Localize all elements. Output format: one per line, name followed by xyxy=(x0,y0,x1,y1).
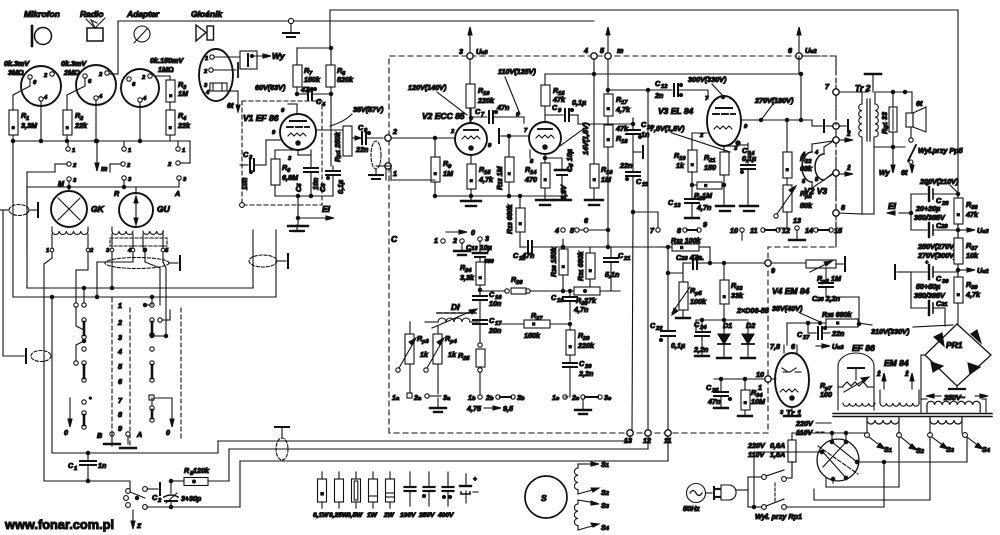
ground under 2a xyxy=(430,398,446,412)
cable shield above switch bank xyxy=(105,258,169,269)
heater pair caps on node xyxy=(824,120,848,132)
svg-text:10k: 10k xyxy=(966,251,979,260)
left lower contacts xyxy=(82,397,92,429)
capacitor C27 22n xyxy=(797,321,845,341)
svg-text:0,1µ: 0,1µ xyxy=(742,154,756,163)
svg-text:9: 9 xyxy=(118,424,122,433)
terminal row 1 2 3 with 0 arrow xyxy=(434,228,489,245)
wire socket pins 4 down xyxy=(41,100,140,141)
tube V2b xyxy=(529,122,561,154)
grounds under V3 xyxy=(716,206,758,211)
svg-text:50k: 50k xyxy=(800,201,813,210)
svg-text:1M: 1M xyxy=(443,169,454,178)
svg-text:120V(140V): 120V(140V) xyxy=(408,83,447,92)
potentiometer Rp5 100k xyxy=(672,263,707,318)
wire V3 anode right xyxy=(741,104,822,126)
capacitor C1 1n xyxy=(68,453,107,481)
solenoid coil group B xyxy=(574,500,578,530)
svg-text:110V: 110V xyxy=(748,450,765,459)
svg-text:4: 4 xyxy=(583,46,588,55)
position numbers 1-9 xyxy=(117,301,123,433)
svg-text:25: 25 xyxy=(711,388,719,394)
svg-text:Adapter: Adapter xyxy=(126,9,160,19)
resistor R14 470 xyxy=(524,154,550,200)
svg-text:Mikrofon: Mikrofon xyxy=(24,9,60,19)
wire node6 down xyxy=(799,59,801,74)
svg-text:ż: ż xyxy=(876,369,881,378)
resistor R15 47k above V2b xyxy=(541,74,566,106)
svg-text:100: 100 xyxy=(820,390,832,399)
svg-text:1: 1 xyxy=(128,148,131,154)
wire node1 to lower bus xyxy=(376,166,386,180)
resistor R7 150k xyxy=(293,48,321,87)
Gt arrow up xyxy=(901,164,914,177)
svg-text:R13 680k: R13 680k xyxy=(505,203,514,234)
svg-text:250V(270V): 250V(270V) xyxy=(917,242,957,251)
trimmer capacitor C2 3-30p xyxy=(147,481,202,507)
wire R16 top to node4 line xyxy=(593,90,595,155)
svg-text:22n: 22n xyxy=(831,329,845,338)
legend resistor 0.5W xyxy=(347,472,363,519)
svg-text:13: 13 xyxy=(793,216,801,225)
svg-text:1: 1 xyxy=(205,56,208,62)
output jack box xyxy=(240,51,257,69)
svg-text:10n: 10n xyxy=(489,299,502,308)
socket terminal row 4 5 6 xyxy=(554,216,610,235)
svg-text:28: 28 xyxy=(941,201,949,207)
label 110V(125V) with callout xyxy=(498,67,536,114)
switch S3 xyxy=(928,433,955,454)
nodes 13 12 11 on box bottom xyxy=(624,430,671,445)
svg-text:1: 1 xyxy=(758,383,762,392)
svg-text:2: 2 xyxy=(452,236,457,245)
resistor R21 150 xyxy=(704,146,729,206)
svg-text:13: 13 xyxy=(674,203,681,209)
svg-text:22n: 22n xyxy=(355,145,369,154)
lower bus under V1 xyxy=(275,194,333,197)
coil A arrows S1 S2 xyxy=(578,460,610,497)
contact row 2 xyxy=(55,141,190,172)
tube V1 cathode wires xyxy=(275,150,311,155)
Wy arrow down xyxy=(879,147,895,177)
svg-text:2W: 2W xyxy=(383,512,395,519)
resistor R2 22k xyxy=(63,110,88,141)
svg-text:4,7k: 4,7k xyxy=(478,175,494,184)
svg-text:3: 3 xyxy=(485,234,489,243)
legend resistor 0.1W xyxy=(313,472,329,519)
wire R2 to socket2 xyxy=(67,78,85,110)
svg-text:47n: 47n xyxy=(300,85,314,94)
resistor R29 220k xyxy=(566,324,595,363)
right 0 arrow xyxy=(166,400,174,437)
capacitor C21 5.1n xyxy=(604,251,630,291)
svg-text:1k: 1k xyxy=(676,161,685,170)
electrolytic C28 20+20u 350/385V xyxy=(911,182,958,237)
transformer Tr2 windings xyxy=(859,90,907,214)
capacitor C14 0.1u xyxy=(738,143,756,206)
arrow up from node 5 xyxy=(606,27,610,53)
input DIN socket 3 (Adapter) xyxy=(121,69,159,107)
capacitor C23 47n xyxy=(676,253,712,270)
svg-text:14V(1,5V): 14V(1,5V) xyxy=(581,122,590,155)
svg-text:C13 10µ: C13 10µ xyxy=(466,243,492,252)
electrolytic C13 10u xyxy=(466,241,494,265)
Tr2 primary top ground xyxy=(865,74,881,92)
svg-text:35V(57V): 35V(57V) xyxy=(353,105,384,114)
V2a lower bus xyxy=(386,166,565,198)
switch cluster with C2 trimmer xyxy=(124,483,160,509)
wires right of cluster xyxy=(147,449,668,509)
svg-text:5,1n: 5,1n xyxy=(605,270,620,279)
svg-text:2: 2 xyxy=(392,127,397,136)
resistor R18 47k xyxy=(604,116,629,249)
wire Rp2 bottom to terminal 11-12 xyxy=(0,0,1,1)
wire V2b grid top C9 connection xyxy=(545,106,635,126)
labels 220V 110V xyxy=(795,419,831,437)
svg-text:R31 680k: R31 680k xyxy=(576,250,585,281)
svg-text:10: 10 xyxy=(730,226,738,235)
svg-text:R: R xyxy=(114,189,120,198)
svg-text:270V(300V): 270V(300V) xyxy=(917,251,957,260)
wires heads to bank xyxy=(44,248,166,336)
svg-text:V2 ECC 85: V2 ECC 85 xyxy=(422,111,465,121)
node 2 on box edge xyxy=(385,127,397,141)
svg-text:4,7k: 4,7k xyxy=(965,290,981,299)
mains socket 50Hz xyxy=(683,484,706,514)
svg-text:4: 4 xyxy=(117,347,122,356)
Tr1 secondary winding B xyxy=(930,417,962,433)
svg-text:Rg1 33: Rg1 33 xyxy=(880,112,889,134)
svg-text:24: 24 xyxy=(699,325,707,331)
svg-text:150k: 150k xyxy=(524,331,541,340)
tube V3 xyxy=(707,96,741,146)
svg-text:7,5V(1,5V): 7,5V(1,5V) xyxy=(650,124,685,133)
cable shield left of GK xyxy=(9,205,29,216)
head feed line xyxy=(27,180,179,252)
speaker DIN socket xyxy=(199,49,233,101)
ground under shield xyxy=(369,169,383,179)
wire V2a anode up xyxy=(469,108,472,123)
wire y453 xyxy=(52,441,630,455)
svg-text:8: 8 xyxy=(118,410,122,419)
resistor R25 xyxy=(458,343,485,372)
capacitor C9 0.1u xyxy=(545,98,586,121)
svg-text:3,3k: 3,3k xyxy=(460,273,475,282)
El arrow xyxy=(296,204,334,220)
svg-text:47n: 47n xyxy=(496,103,510,112)
terminal row 1c 2c 3c xyxy=(552,393,612,402)
resistor R33 33k xyxy=(720,261,744,330)
svg-text:El: El xyxy=(888,201,897,211)
wire C12 to V3 grid xyxy=(707,90,709,99)
solenoid coil group A xyxy=(574,464,578,494)
svg-text:50Hz: 50Hz xyxy=(683,504,700,513)
ground under 2c xyxy=(575,399,591,414)
capacitor C17 20n xyxy=(473,316,502,343)
label 7,5V(1,5V) with callout xyxy=(650,124,730,152)
capacitor C11 22n xyxy=(619,152,658,430)
svg-text:110V(125V): 110V(125V) xyxy=(498,67,536,76)
resistor R5 120k xyxy=(169,466,229,486)
capacitor C15 4.7n xyxy=(668,183,712,213)
potentiometer Rp2 50k xyxy=(774,178,813,230)
svg-text:m: m xyxy=(101,164,108,173)
coil B arrows S3 S4 xyxy=(578,500,610,532)
resistor R39 4.7k xyxy=(954,270,981,303)
svg-text:0,5W: 0,5W xyxy=(347,512,363,519)
labels 250V(270V) 270V(300V) xyxy=(917,242,957,260)
svg-text:1M: 1M xyxy=(702,191,713,200)
resistor R24 3.3k xyxy=(460,262,485,296)
V4 pin labels and top leads xyxy=(770,342,800,416)
tube V4 EM84 xyxy=(775,353,809,407)
svg-text:A: A xyxy=(174,189,180,198)
svg-text:EM 84: EM 84 xyxy=(884,358,909,368)
wire R1 to socket1 xyxy=(13,79,30,110)
svg-text:400V: 400V xyxy=(437,512,454,519)
resistor R11 4.7k xyxy=(467,155,494,201)
svg-text:ż: ż xyxy=(846,163,851,172)
right lower contacts xyxy=(150,398,154,422)
jumper R26 xyxy=(482,275,570,294)
svg-text:1n: 1n xyxy=(641,130,650,139)
node 3 on box top xyxy=(459,47,488,59)
capacitor C22 0.1u xyxy=(650,245,685,430)
tube V1 pin labels xyxy=(272,108,292,162)
svg-text:27: 27 xyxy=(802,335,810,341)
resistor R19 1k xyxy=(674,133,707,185)
resistor R1 3.3M xyxy=(9,110,38,141)
record head GU xyxy=(119,187,171,227)
contact row 1 xyxy=(66,141,185,154)
svg-text:13: 13 xyxy=(624,436,632,445)
svg-text:Wył. przy Rp1: Wył. przy Rp1 xyxy=(755,512,802,521)
wire V2b cathode xyxy=(529,150,531,158)
svg-text:V3 EL 84: V3 EL 84 xyxy=(658,106,694,116)
svg-text:6t: 6t xyxy=(227,101,234,110)
wire node 10 to V4 xyxy=(714,378,776,380)
svg-text:270V(180V): 270V(180V) xyxy=(754,96,794,105)
capacitor C3 10n xyxy=(240,150,266,190)
svg-text:1k: 1k xyxy=(420,350,429,359)
shield T right xyxy=(169,256,180,270)
wire speaker pin1 to output jack xyxy=(214,56,240,58)
svg-text:C: C xyxy=(391,234,398,244)
dashed box around V1 xyxy=(242,101,322,205)
svg-text:1: 1 xyxy=(46,248,49,254)
heater winding EM84 xyxy=(876,358,919,406)
bus line under inputs xyxy=(11,139,190,142)
svg-text:1MΩ: 1MΩ xyxy=(158,65,174,74)
svg-text:2×D06-58: 2×D06-58 xyxy=(736,306,769,315)
svg-text:0: 0 xyxy=(64,428,68,437)
mains plug xyxy=(706,485,736,500)
svg-text:ż: ż xyxy=(904,369,909,378)
speaker icon xyxy=(196,25,214,41)
svg-text:EF 86: EF 86 xyxy=(852,343,875,353)
socket terminal row 10 11 12 xyxy=(730,226,790,235)
wire C3 to tube pin9 xyxy=(266,140,280,165)
svg-text:33k: 33k xyxy=(731,291,744,300)
svg-text:100k: 100k xyxy=(690,297,707,306)
wires shields to bank xyxy=(13,230,276,305)
svg-text:V2 V3: V2 V3 xyxy=(804,186,827,196)
svg-text:27k: 27k xyxy=(583,296,597,305)
tube V2a xyxy=(455,123,487,155)
svg-text:22n: 22n xyxy=(619,161,633,170)
switch Wyl przy Pp5 xyxy=(908,145,964,164)
Tr1 secondary winding A xyxy=(867,417,899,433)
left 0 arrow xyxy=(64,398,72,437)
ground near shield xyxy=(290,225,304,231)
GU azimuth dashed box xyxy=(110,238,167,246)
svg-text:47k: 47k xyxy=(552,95,566,104)
ground under V2a xyxy=(461,201,481,206)
svg-text:20n: 20n xyxy=(488,326,502,335)
svg-text:6t: 6t xyxy=(901,168,908,177)
socket terminal row 7 8 9 xyxy=(650,220,707,235)
svg-text:0k.3mV: 0k.3mV xyxy=(4,59,30,68)
svg-text:30: 30 xyxy=(942,279,949,285)
legend resistor 2W xyxy=(383,472,395,519)
GK coil xyxy=(46,227,94,254)
svg-text:0: 0 xyxy=(471,228,475,237)
svg-text:19: 19 xyxy=(557,298,564,304)
svg-text:www.fonar.com.pl: www.fonar.com.pl xyxy=(4,517,114,532)
resistor R6 6.8M xyxy=(271,150,299,196)
wire node4 down xyxy=(593,59,595,90)
svg-text:GU: GU xyxy=(157,204,171,214)
svg-text:0k.150mV: 0k.150mV xyxy=(150,56,184,65)
potentiometer Rp4 1k xyxy=(424,326,458,384)
svg-text:0,1W: 0,1W xyxy=(313,512,329,519)
potentiometer Rp3 1k xyxy=(396,322,430,393)
capacitor C4 47n xyxy=(295,85,332,108)
wire C12 left to R18 top xyxy=(606,88,649,430)
resistor R9 1M xyxy=(431,138,454,196)
svg-text:1: 1 xyxy=(72,148,75,154)
cable shield lower left xyxy=(26,349,51,363)
svg-text:4,7k: 4,7k xyxy=(615,105,631,114)
cable shield mid xyxy=(249,255,277,267)
Tr1 core double lines xyxy=(786,408,992,418)
svg-text:0,1µ: 0,1µ xyxy=(572,98,586,107)
legend capacitor 400V xyxy=(437,472,454,519)
svg-text:R35 680k: R35 680k xyxy=(822,310,853,319)
erase head GK xyxy=(51,187,105,227)
svg-text:1: 1 xyxy=(74,466,77,472)
svg-text:12: 12 xyxy=(661,84,668,90)
wire tube grid cap to pin6 xyxy=(288,104,297,114)
resistor R3 1M xyxy=(154,76,189,102)
node 10 xyxy=(756,370,771,392)
label 300V(330V) with callout xyxy=(688,75,727,99)
V2a pin labels xyxy=(450,129,492,149)
svg-text:150: 150 xyxy=(704,163,716,172)
V3 pin labels xyxy=(699,96,748,152)
wire Ua2 arrow xyxy=(956,266,989,275)
wire node2 to V2a grid xyxy=(391,136,455,139)
svg-text:15: 15 xyxy=(834,226,843,235)
svg-text:47k: 47k xyxy=(615,124,629,133)
resistor R13 680k xyxy=(505,194,525,247)
svg-text:220V: 220V xyxy=(747,441,766,450)
svg-text:22k: 22k xyxy=(74,121,88,130)
node 9 xyxy=(765,260,775,275)
nodes on right box edge xyxy=(833,123,862,216)
svg-text:10n: 10n xyxy=(240,177,249,190)
arrow up from node 6 xyxy=(797,27,801,53)
socket terminal 13 with ground xyxy=(789,216,805,240)
bank grounds xyxy=(104,432,136,448)
svg-text:560: 560 xyxy=(484,259,494,265)
supply line y74 xyxy=(545,72,803,75)
resistor R16 1M xyxy=(590,155,613,200)
right square contact xyxy=(149,395,172,400)
GU coils xyxy=(106,227,169,254)
svg-text:100V: 100V xyxy=(400,512,416,519)
svg-text:D2: D2 xyxy=(746,321,755,330)
drum wiring xyxy=(752,437,967,509)
label 120V(140V) with callout xyxy=(408,83,467,115)
svg-text:9: 9 xyxy=(703,220,707,229)
svg-text:120k: 120k xyxy=(193,466,210,475)
wire connector to 6t arrow xyxy=(227,91,240,112)
svg-text:8: 8 xyxy=(841,203,845,212)
terminal row 1a 2a 3a xyxy=(392,384,451,402)
svg-text:Wył.przy Pp5: Wył.przy Pp5 xyxy=(918,146,964,155)
resistor R30 27k horizontal xyxy=(570,287,620,307)
svg-text:Wy: Wy xyxy=(272,51,286,61)
svg-text:1: 1 xyxy=(182,148,185,154)
capacitor C5 0.1u xyxy=(318,166,345,196)
legend resistor 1W xyxy=(367,472,378,519)
svg-text:4: 4 xyxy=(554,226,559,235)
svg-text:820k: 820k xyxy=(337,75,354,84)
z arrow upper xyxy=(840,129,853,142)
resistor R26b 150k vertical xyxy=(549,239,568,293)
V2b pin labels xyxy=(516,112,534,165)
svg-text:6,8M: 6,8M xyxy=(282,173,299,182)
svg-text:A: A xyxy=(136,430,142,439)
capacitor C25 47n xyxy=(706,377,732,408)
fuse 0.6A 1.5A xyxy=(747,433,796,477)
svg-text:25: 25 xyxy=(462,356,470,362)
svg-text:12: 12 xyxy=(643,436,651,445)
svg-text:m: m xyxy=(617,46,624,55)
svg-text:1W: 1W xyxy=(367,512,378,519)
svg-text:10: 10 xyxy=(756,370,764,379)
svg-text:V1 EF 86: V1 EF 86 xyxy=(243,113,279,123)
grounds under V2b xyxy=(536,200,603,205)
electrolytic C29 50+50u 350/385V xyxy=(911,260,958,322)
ground on top bus xyxy=(283,18,299,37)
dashed link of switch xyxy=(774,483,776,502)
capacitor C5a 10n xyxy=(294,150,320,196)
dashed node8 stub xyxy=(835,129,837,247)
radio (TV) icon xyxy=(86,18,105,41)
resistor R12 1M xyxy=(495,134,514,196)
dashed guide lines xyxy=(112,298,181,446)
svg-text:47n: 47n xyxy=(707,397,721,406)
svg-text:Rp1 250k: Rp1 250k xyxy=(333,131,342,162)
svg-text:150k: 150k xyxy=(304,75,321,84)
diode D2 xyxy=(742,321,755,358)
svg-text:35V(40V): 35V(40V) xyxy=(772,304,803,313)
wire cathode join xyxy=(724,145,738,147)
drum top stems xyxy=(792,431,865,442)
node 1 on box edge xyxy=(385,163,397,178)
